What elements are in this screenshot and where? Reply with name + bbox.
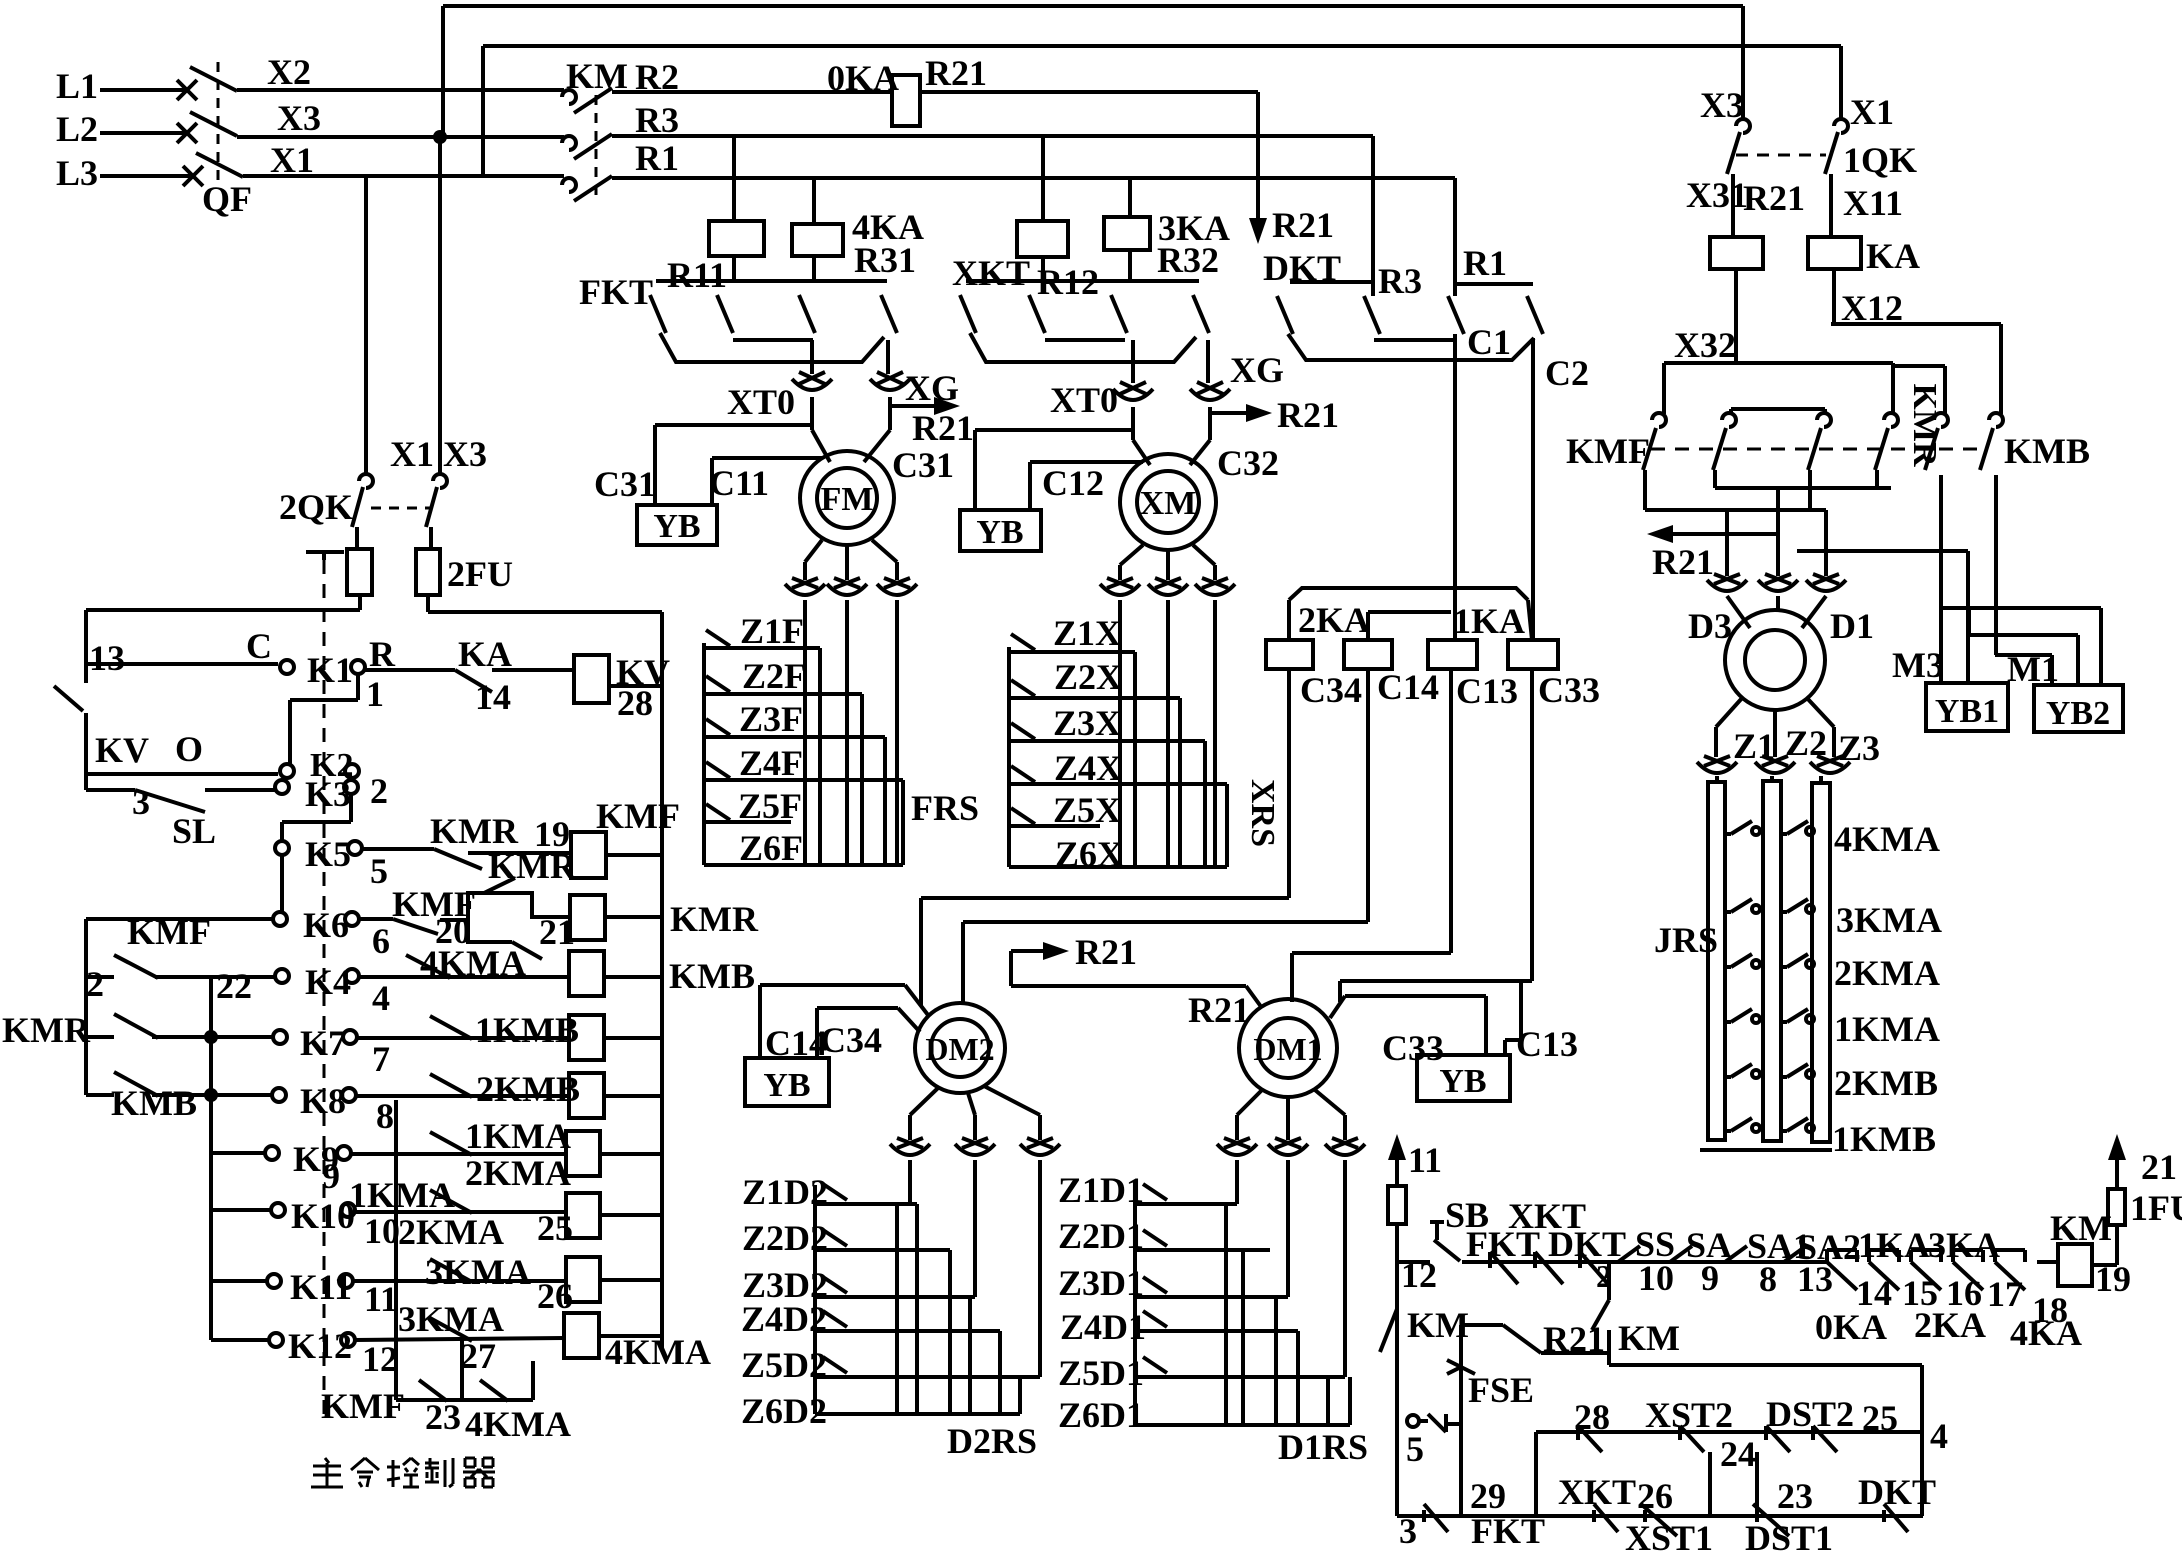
relay coil C14 [1344,640,1392,669]
svg-text:XKT: XKT [952,253,1030,293]
svg-text:Z1X: Z1X [1053,613,1121,653]
wire row1 [1462,1260,1609,1264]
svg-text:C12: C12 [1042,463,1104,503]
brake YB (XM) [960,510,1041,551]
wire thermals to FM [810,397,814,430]
svg-text:26: 26 [1637,1476,1673,1516]
wire K5-K6 link [280,855,284,912]
svg-text:Z3: Z3 [1838,728,1880,768]
FM rotor leads [805,540,822,562]
svg-text:R21: R21 [1075,932,1137,972]
svg-text:2KA: 2KA [1298,600,1370,640]
svg-text:K5: K5 [305,834,351,874]
D rotor leads [1716,697,1743,727]
wire C33 down [1530,669,1534,981]
svg-text:C34: C34 [820,1020,882,1060]
svg-text:17: 17 [1987,1274,2023,1314]
svg-text:5: 5 [1406,1429,1424,1469]
svg-text:D2RS: D2RS [947,1421,1037,1461]
svg-text:C14: C14 [1377,667,1439,707]
wire C1 vertical [1453,334,1457,640]
svg-text:DM1: DM1 [1253,1031,1322,1067]
brake YB (FM) [637,505,717,545]
svg-text:KMR: KMR [430,811,519,851]
relay coil 2KMB [569,1073,604,1118]
svg-text:R1: R1 [635,138,679,178]
controller camshaft [306,550,344,554]
wire top bus R21 upper [443,4,1743,8]
fuse (11) [1388,1186,1406,1224]
svg-text:3KMA: 3KMA [398,1299,504,1339]
svg-text:X3: X3 [443,434,487,474]
svg-text:QF: QF [202,179,252,219]
svg-text:9: 9 [1701,1258,1719,1298]
svg-text:9: 9 [322,1156,340,1196]
wire C34-DM2 [921,896,1289,900]
svg-text:3KMA: 3KMA [1836,900,1942,940]
contact K2 [280,764,294,778]
svg-text:XG: XG [905,368,959,408]
wire main control drop [1395,1224,1399,1516]
svg-text:Z1D1: Z1D1 [1058,1170,1144,1210]
svg-text:R21: R21 [1652,542,1714,582]
DM2 rotor leads [910,1088,938,1115]
resistor bank D1RS [1133,1185,1137,1425]
svg-text:KM: KM [1618,1318,1680,1358]
svg-text:YB: YB [1439,1063,1486,1100]
svg-text:1KMB: 1KMB [475,1010,579,1050]
svg-text:Z5D1: Z5D1 [1058,1353,1144,1393]
svg-text:X2: X2 [267,52,311,92]
svg-text:Z1F: Z1F [740,611,804,651]
motor DM1 [1239,999,1337,1097]
svg-text:7: 7 [372,1039,390,1079]
wire C14-DM2 [963,920,1368,924]
svg-text:Z4F: Z4F [739,743,803,783]
svg-text:1QK: 1QK [1843,140,1917,180]
wire inner bracket [1731,407,1825,411]
svg-text:Z6F: Z6F [739,828,803,868]
time contact group XKT [966,279,1199,283]
brake YB (DM1) [1417,1055,1510,1101]
brake YB1 [1926,683,2008,731]
svg-text:Z1D2: Z1D2 [742,1172,828,1212]
wire row1 right [1609,1260,1827,1264]
wire YB-C31 [653,425,657,505]
svg-text:YB2: YB2 [2046,695,2110,732]
svg-text:23: 23 [425,1397,461,1437]
wire to master controller left rail [86,608,360,612]
svg-text:Z2X: Z2X [1054,657,1122,697]
breaker QF pole L2 [177,123,197,143]
wire R2 to R21 arrow [920,90,1258,94]
svg-text:11: 11 [1408,1140,1442,1180]
svg-text:KMF: KMF [321,1386,405,1426]
svg-text:C31: C31 [594,464,656,504]
svg-text:R21: R21 [912,408,974,448]
contact K8 [272,1088,286,1102]
svg-text:29: 29 [1470,1476,1506,1516]
resistor bank XRS [1118,600,1122,867]
svg-text:2KA: 2KA [1914,1305,1986,1345]
wire phases to D motor [1725,510,1729,576]
slip rings D bottom [1697,762,1737,773]
svg-text:1KA: 1KA [1453,601,1525,641]
arrow R21 left (D) [1665,532,1778,536]
wire C13-DM1 [1292,951,1451,955]
svg-text:KMR: KMR [670,899,759,939]
relay coil XKT/R12 [1041,136,1045,221]
svg-text:2KMB: 2KMB [1834,1063,1938,1103]
svg-text:Z5X: Z5X [1053,790,1121,830]
XM rotor leads [1120,545,1143,565]
svg-text:XG: XG [1230,350,1284,390]
DM1 rotor leads [1237,1090,1262,1115]
wire R21-DM1 [1011,984,1246,988]
wire K1-K2 link [356,674,360,700]
svg-text:4: 4 [372,978,390,1018]
svg-text:FRS: FRS [911,788,979,828]
contact SS [1618,1246,1640,1262]
svg-text:C33: C33 [1538,670,1600,710]
motor XM [1120,454,1216,550]
relay coil 1KMA [566,1131,600,1176]
fuse 2FU [429,527,433,549]
contact K6 [273,912,287,926]
svg-text:KMF: KMF [127,912,211,952]
svg-text:2KMA: 2KMA [465,1153,571,1193]
svg-text:L1: L1 [56,66,98,106]
svg-text:L3: L3 [56,153,98,193]
resistor bank FRS [803,600,807,865]
svg-text:C32: C32 [1217,443,1279,483]
svg-text:Z2D2: Z2D2 [742,1218,828,1258]
svg-text:D1RS: D1RS [1278,1427,1368,1467]
contact K11 [211,1279,267,1283]
svg-text:YB: YB [976,514,1023,551]
slip rings D top [1707,580,1747,591]
svg-text:XT0: XT0 [1050,380,1118,420]
svg-text:3KMA: 3KMA [425,1252,531,1292]
wire X3 branch down to 2QK [438,137,442,475]
wire bracket 2KA/1KA [1289,588,1528,600]
svg-text:13: 13 [89,638,125,678]
contact K7 [273,1030,287,1044]
svg-text:X1: X1 [390,434,434,474]
svg-text:DM2: DM2 [925,1031,994,1067]
thermal element XG (XM) [1206,340,1210,383]
svg-text:KMR: KMR [2,1010,91,1050]
wire thermals to XM [1131,407,1135,440]
wire R3 [612,134,1373,138]
wire K6 left [86,917,273,921]
relay coil 3KA R32 [1128,178,1132,217]
wire KMR contact feed jog [1893,364,1945,368]
relay coil KMR [570,895,605,940]
wire bracket bottoms [1643,470,1647,510]
svg-text:2QK: 2QK [279,487,353,527]
svg-text:KMB: KMB [669,956,755,996]
wire top bus second [483,44,1841,48]
svg-text:L2: L2 [56,109,98,149]
wire C34 down [1287,669,1291,898]
svg-text:X1: X1 [1850,92,1894,132]
wire C33-DM1 [1340,979,1532,983]
brake YB2 [2034,685,2123,732]
arrow R21 right (FM) [890,404,942,408]
svg-text:Z5F: Z5F [738,786,802,826]
wire hold output [1609,1363,1922,1367]
wire C13 stub DM1 [1519,981,1523,1040]
contact KA (KV line) [365,668,455,672]
svg-text:C1: C1 [1467,322,1511,362]
svg-text:C33: C33 [1382,1028,1444,1068]
svg-text:Z3D1: Z3D1 [1058,1263,1144,1303]
svg-text:R21: R21 [1277,395,1339,435]
svg-text:R21: R21 [1272,205,1334,245]
svg-text:Z6X: Z6X [1055,834,1123,874]
svg-text:XT0: XT0 [727,382,795,422]
svg-text:KV: KV [95,730,149,770]
svg-text:DST2: DST2 [1766,1394,1854,1434]
svg-text:K7: K7 [300,1023,346,1063]
thermal element XT0 (XM) [1131,340,1135,383]
svg-text:Z4X: Z4X [1054,748,1122,788]
svg-text:27: 27 [460,1336,496,1376]
svg-text:0KA: 0KA [1815,1307,1887,1347]
wire R2 [612,90,892,94]
fuse 1FU [2108,1189,2125,1225]
svg-text:X11: X11 [1843,183,1903,223]
svg-text:KMB: KMB [2004,431,2090,471]
svg-text:FKT: FKT [579,272,653,312]
relay coil R11/FKT [732,136,736,221]
svg-text:R21: R21 [925,53,987,93]
contact K3 [275,780,289,794]
svg-text:1KMA: 1KMA [465,1116,571,1156]
svg-text:XM: XM [1140,485,1197,522]
svg-text:Z4D2: Z4D2 [741,1299,827,1339]
svg-text:23: 23 [1777,1476,1813,1516]
svg-text:KMR: KMR [1906,383,1943,467]
relay coil 1KMB [569,1015,604,1060]
svg-text:KMB: KMB [111,1083,197,1123]
svg-text:1: 1 [366,674,384,714]
wire C34 stub DM2 [817,1006,898,1010]
wire K3-K5 link [350,778,354,780]
svg-text:Z2D1: Z2D1 [1058,1216,1144,1256]
arrow 11 up [1395,1152,1399,1184]
svg-text:KA: KA [1866,236,1920,276]
brake YB (DM2) [745,1058,829,1106]
svg-text:2: 2 [370,771,388,811]
svg-text:3KA: 3KA [1928,1225,2000,1265]
breaker QF pole L1 [177,80,197,100]
svg-text:X32: X32 [1674,325,1736,365]
svg-text:21: 21 [2141,1147,2177,1187]
wire to thermal XG [886,340,890,374]
svg-text:XST2: XST2 [1645,1395,1733,1435]
svg-text:Z4D1: Z4D1 [1060,1307,1146,1347]
relay coil 4KA R31 [812,178,816,224]
contact K10 [211,1208,271,1212]
svg-text:Z6D1: Z6D1 [1058,1395,1144,1435]
relay coil 2KMA [566,1193,600,1238]
svg-text:KMF: KMF [1566,431,1650,471]
slip rings DM1 [1217,1144,1257,1155]
wire FSE branch [1459,1325,1463,1516]
wire R1 [612,176,1455,180]
svg-text:K4: K4 [305,962,351,1002]
wire C2 vertical [1531,338,1535,640]
contact K5 [275,841,289,855]
contact K12 [211,1338,269,1342]
svg-text:FM: FM [821,481,874,518]
svg-text:1KMB: 1KMB [1832,1119,1936,1159]
breaker QF pole L3 [183,166,203,186]
svg-text:C11: C11 [709,463,769,503]
arrow R21 down [1256,200,1260,226]
svg-text:DKT: DKT [1858,1472,1936,1512]
motor D [1725,610,1825,710]
svg-text:D3: D3 [1688,606,1732,646]
svg-text:C13: C13 [1456,671,1518,711]
svg-text:KMF: KMF [596,796,680,836]
svg-text:R31: R31 [854,240,916,280]
svg-text:22: 22 [216,966,252,1006]
svg-text:4KMA: 4KMA [1834,819,1940,859]
wire C13 down [1449,669,1453,953]
fuse left [355,527,359,549]
svg-text:4: 4 [1930,1416,1948,1456]
contact K1 [280,660,294,674]
svg-text:K6: K6 [303,905,349,945]
wire KMB chain [1994,475,1998,655]
svg-text:C2: C2 [1545,353,1589,393]
svg-text:2KMA: 2KMA [1834,953,1940,993]
relay coil KV [574,655,609,703]
svg-text:FKT: FKT [1471,1511,1545,1551]
relay coil 3KMA [566,1257,600,1302]
svg-text:Z2F: Z2F [742,656,806,696]
svg-text:8: 8 [1759,1259,1777,1299]
svg-text:K8: K8 [300,1081,346,1121]
arrow 21 up [2115,1152,2119,1189]
slip rings XM [1100,584,1140,595]
svg-text:R1: R1 [1463,243,1507,283]
svg-text:24: 24 [1720,1434,1756,1474]
svg-text:YB: YB [653,508,700,545]
wire to thermal XT0 [810,340,814,374]
wire D1 side chain [1797,549,1968,553]
svg-text:FSE: FSE [1468,1370,1534,1410]
svg-text:C: C [246,626,272,666]
svg-text:Z3X: Z3X [1053,703,1121,743]
svg-text:11: 11 [364,1279,398,1319]
relay coil 4KMA [564,1313,599,1358]
wire C33 stub DM1 [1330,996,1345,1018]
svg-text:1FU: 1FU [2130,1188,2182,1228]
relay coil KMB [569,951,604,996]
svg-text:R3: R3 [1378,261,1422,301]
svg-text:12: 12 [362,1339,398,1379]
junction dot X3/vertical [433,130,447,144]
svg-text:2FU: 2FU [447,554,513,594]
wire C14 down [1366,669,1370,922]
svg-text:X31: X31 [1686,175,1748,215]
wire KMR to YB1 [1939,475,1943,683]
svg-text:28: 28 [617,683,653,723]
svg-text:K3: K3 [305,774,351,814]
slip rings DM2 [890,1144,930,1155]
svg-text:6: 6 [372,921,390,961]
slip rings FM [785,584,825,595]
svg-text:D1: D1 [1830,606,1874,646]
svg-text:YB: YB [763,1067,810,1104]
svg-text:YB1: YB1 [1935,693,1999,730]
caption master controller (drawn CJK strokes) [325,1458,329,1463]
svg-text:SL: SL [172,811,216,851]
resistor bank D2RS [813,1185,817,1414]
svg-text:0KA: 0KA [827,58,899,98]
svg-text:2: 2 [86,964,104,1004]
svg-text:4KMA: 4KMA [465,1404,571,1444]
wire to coil rail [428,610,662,614]
svg-text:1KMA: 1KMA [1834,1009,1940,1049]
svg-text:X3: X3 [277,98,321,138]
wire 28 row [1534,1432,1538,1516]
svg-text:K1: K1 [307,650,353,690]
svg-text:Z5D2: Z5D2 [741,1345,827,1385]
wire YB-C12 (XM) [973,430,977,510]
svg-text:25: 25 [1862,1398,1898,1438]
wires DM2 to D2RS [908,1160,912,1204]
arrow R21 (DM2) [1009,951,1013,986]
svg-text:4KA: 4KA [2010,1313,2082,1353]
svg-text:R21: R21 [1743,178,1805,218]
wire X1 branch down to 2QK [364,178,368,475]
svg-text:XST1: XST1 [1625,1518,1713,1552]
svg-text:C31: C31 [892,445,954,485]
svg-text:2KMB: 2KMB [476,1069,580,1109]
relay coil C33 [1508,640,1558,669]
wires DM1 to D1RS [1235,1160,1239,1204]
wire C14 stub DM2 [760,983,905,987]
svg-text:C13: C13 [1516,1024,1578,1064]
contact K4 [275,969,289,983]
svg-text:5: 5 [370,851,388,891]
motor FM [800,451,894,545]
thermal element XG (FM) [870,379,910,390]
svg-text:Z6D2: Z6D2 [741,1391,827,1431]
wire KA-X12 bracket [1831,322,2001,326]
svg-text:R21: R21 [1188,990,1250,1030]
arrow R21 right (XM) [1210,411,1254,415]
svg-text:2KMA: 2KMA [398,1212,504,1252]
svg-text:14: 14 [475,677,511,717]
svg-text:M3: M3 [1892,645,1944,685]
motor DM2 [915,1003,1005,1093]
contact K9 [211,1151,265,1155]
svg-text:R11: R11 [667,255,727,295]
svg-text:8: 8 [376,1096,394,1136]
wire YB-C11 [710,458,714,505]
svg-text:O: O [175,729,203,769]
svg-text:C34: C34 [1300,670,1362,710]
svg-text:R32: R32 [1157,240,1219,280]
svg-text:XRS: XRS [1244,779,1281,847]
svg-text:Z3F: Z3F [739,699,803,739]
